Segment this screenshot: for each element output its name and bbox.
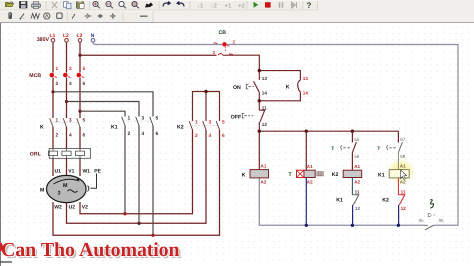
svg-text:OFF: OFF — [231, 114, 241, 120]
svg-text:K1: K1 — [378, 172, 385, 178]
svg-text:6: 6 — [83, 132, 86, 138]
svg-text:K2: K2 — [177, 124, 184, 130]
svg-text:Can Tho Automation: Can Tho Automation — [1, 239, 179, 261]
svg-text:PE: PE — [94, 168, 101, 174]
svg-text:12: 12 — [355, 206, 361, 211]
svg-text:V2: V2 — [82, 205, 88, 211]
svg-text:+1: +1 — [225, 3, 233, 10]
svg-text:13: 13 — [262, 76, 268, 81]
svg-text:11: 11 — [401, 189, 406, 194]
svg-text:14: 14 — [303, 90, 309, 95]
svg-text:12: 12 — [401, 206, 407, 211]
svg-text:1: 1 — [56, 66, 59, 72]
svg-text:W2: W2 — [54, 205, 62, 211]
svg-text:2: 2 — [195, 133, 198, 139]
svg-text:5: 5 — [83, 117, 86, 123]
svg-text:55: 55 — [354, 137, 360, 142]
svg-text:13: 13 — [303, 76, 309, 81]
svg-text:2: 2 — [56, 81, 59, 87]
svg-text:ORL: ORL — [30, 151, 42, 157]
svg-text:2: 2 — [128, 131, 131, 137]
svg-text:4: 4 — [69, 132, 72, 138]
svg-text:U2: U2 — [69, 205, 76, 211]
svg-text:5: 5 — [156, 116, 159, 122]
svg-text:3: 3 — [142, 116, 145, 122]
svg-text:1: 1 — [128, 116, 131, 122]
svg-text:A1: A1 — [261, 164, 267, 169]
svg-text:A2: A2 — [400, 180, 406, 185]
svg-text:3: 3 — [209, 119, 212, 125]
svg-text:T: T — [331, 146, 334, 152]
svg-text:3: 3 — [58, 191, 61, 197]
svg-text:↓2: ↓2 — [211, 3, 218, 10]
svg-text:56: 56 — [354, 154, 360, 159]
svg-text:K1: K1 — [111, 124, 118, 130]
svg-text:?: ? — [307, 1, 312, 10]
svg-text:ON: ON — [233, 85, 241, 91]
svg-text:1: 1 — [195, 119, 198, 125]
svg-text:14: 14 — [262, 90, 268, 95]
svg-text:1: 1 — [56, 117, 59, 123]
svg-text:A2: A2 — [354, 179, 360, 184]
svg-text:T: T — [377, 146, 380, 152]
svg-text:5: 5 — [83, 66, 86, 72]
svg-text:MCB: MCB — [29, 73, 41, 79]
svg-text:A1: A1 — [307, 164, 313, 169]
svg-text:A2: A2 — [307, 179, 313, 184]
svg-text:4: 4 — [142, 131, 145, 137]
svg-text:67: 67 — [400, 137, 406, 142]
svg-text:M: M — [63, 183, 68, 189]
svg-text:M: M — [40, 188, 44, 194]
svg-text:4: 4 — [69, 81, 72, 87]
svg-text:11: 11 — [355, 189, 360, 194]
svg-text:A1: A1 — [400, 164, 406, 169]
svg-text:K1: K1 — [336, 197, 343, 203]
svg-text:380V: 380V — [37, 37, 50, 43]
svg-text:3: 3 — [69, 66, 72, 72]
svg-text:K: K — [40, 124, 44, 130]
svg-text:3: 3 — [69, 117, 72, 123]
svg-text:6: 6 — [83, 81, 86, 87]
svg-text:K2: K2 — [382, 197, 389, 203]
svg-text:CB: CB — [219, 30, 227, 36]
svg-text:2: 2 — [56, 132, 59, 138]
svg-text:↓1: ↓1 — [197, 3, 204, 10]
svg-text:96: 96 — [439, 218, 445, 223]
svg-text:11: 11 — [262, 106, 267, 111]
svg-text:6: 6 — [222, 133, 225, 139]
svg-text:U1: U1 — [55, 168, 62, 174]
svg-text:V1: V1 — [68, 168, 74, 174]
svg-text:12: 12 — [262, 122, 268, 127]
svg-text:95: 95 — [419, 218, 425, 223]
svg-text:K2: K2 — [332, 172, 339, 178]
svg-text:A2: A2 — [261, 180, 267, 185]
svg-text:A1: A1 — [354, 164, 360, 169]
svg-text:5: 5 — [222, 119, 225, 125]
svg-text:W1: W1 — [83, 168, 91, 174]
svg-text:6: 6 — [156, 131, 159, 137]
svg-text:+2: +2 — [238, 3, 246, 10]
svg-text:K: K — [286, 84, 290, 90]
svg-text:4: 4 — [209, 133, 212, 139]
svg-text:K: K — [242, 172, 246, 178]
svg-text:68: 68 — [400, 154, 406, 159]
